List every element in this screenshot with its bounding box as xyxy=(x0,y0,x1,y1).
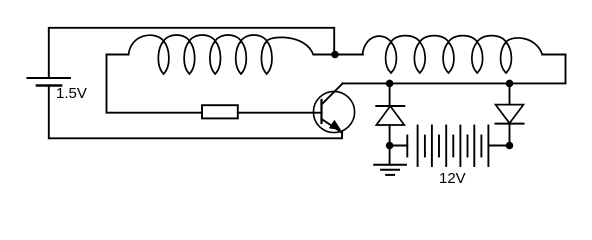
transistor Q1 emitter line xyxy=(322,119,343,133)
node D2-battery junction xyxy=(506,142,514,150)
wire coil L1 left lead down to resistor xyxy=(107,55,203,113)
diode D2 cathode bar xyxy=(496,123,524,125)
transistor Q1 circle xyxy=(313,91,354,132)
battery B1 1.5V short plate xyxy=(37,84,61,87)
node D1-battery-ground junction xyxy=(386,142,394,150)
inductor L2 xyxy=(362,36,542,73)
label 12V xyxy=(439,170,466,187)
wire diode D2 top lead xyxy=(509,83,511,104)
node collector-diode D2 junction xyxy=(506,80,514,88)
wire battery B2 right lead xyxy=(488,145,509,147)
transistor Q1 collector line xyxy=(322,83,343,104)
diode D1 cathode bar xyxy=(376,105,404,107)
wire battery B2 left lead xyxy=(390,145,408,147)
diode D2 triangle xyxy=(496,105,524,124)
resistor R1 xyxy=(202,105,238,118)
wire coil L2 left lead from junction xyxy=(335,54,363,56)
inductor L1 xyxy=(129,35,314,74)
battery B2 12V plates xyxy=(407,126,488,167)
diode D1 triangle xyxy=(376,106,404,125)
transistor Q1 base bar xyxy=(320,100,322,123)
wire diode D1 top lead xyxy=(389,83,391,106)
label 1.5V xyxy=(56,85,87,102)
node collector-diode D1 junction xyxy=(386,80,394,88)
battery B1 1.5V long plate xyxy=(28,77,71,79)
wire resistor to base xyxy=(238,112,322,114)
wire coil L1 right lead to junction xyxy=(314,54,335,56)
ground symbol xyxy=(374,164,406,166)
node junction coils xyxy=(331,51,339,59)
wire battery minus down and bottom rail to emitter xyxy=(49,86,342,139)
wire diode D2 bottom lead xyxy=(509,124,511,146)
transistor Q1 emitter arrow xyxy=(330,121,341,130)
wire diode D1 bottom lead to ground node xyxy=(389,125,391,165)
wire coil L2 right lead down to collector rail xyxy=(343,55,566,84)
wire top rail from battery plus to coil junction xyxy=(49,28,334,78)
